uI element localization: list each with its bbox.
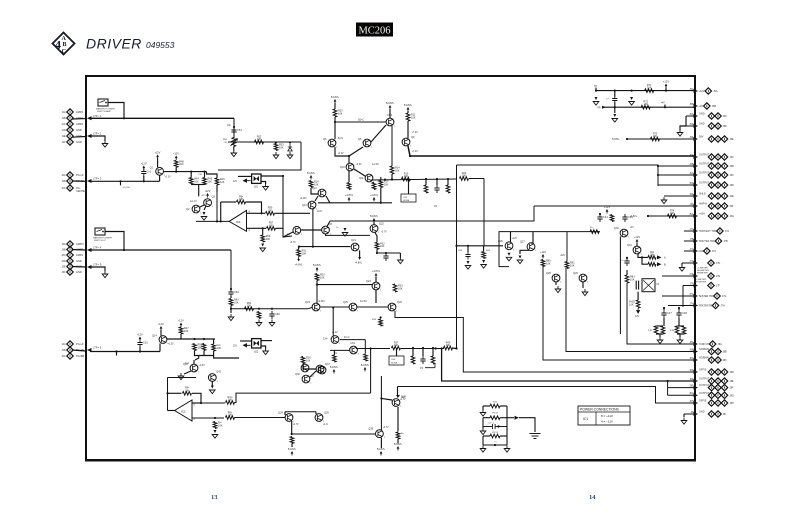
junction C46 [626,257,628,259]
svg-text:•2V: •2V [630,227,634,229]
capacitor C2 horizontal [483,424,507,429]
transistor Q14 [159,336,167,344]
wire staircase [667,381,669,395]
svg-text:Q34: Q34 [278,412,283,415]
resistor R47 [179,327,183,334]
wire R11 to Q9 [407,121,409,138]
svg-text:C61: C61 [143,341,148,345]
svg-text:10K: 10K [185,389,190,392]
wire R38 up [412,348,414,356]
junction row2 [657,165,659,167]
wire Q22 top [373,222,375,225]
svg-text:Q23: Q23 [366,280,371,283]
svg-text:POWER CONNECTIONS: POWER CONNECTIONS [580,408,620,412]
svg-text:10K: 10K [380,245,385,248]
wire Q38 vert [380,376,382,430]
transistor Q26 [505,242,513,250]
wire CH4 top [389,109,391,118]
wire R17 stub [380,188,382,203]
rail 54.8VL R16 [310,177,312,180]
svg-text:J6F: J6F [730,205,735,208]
resistor R75 [590,230,599,234]
wire fb top [221,201,236,203]
wire rung4 left [483,435,490,437]
svg-text:•4V: •4V [661,102,665,105]
wire Q19 base row [330,349,349,351]
connector J4C PG-BB [67,353,73,359]
resistor R42 [396,432,400,439]
junction R38b [441,347,443,349]
ground LTP-5 [102,271,108,278]
wire main vertical B [483,179,485,247]
junction R39 [432,347,434,349]
wire Q1 turn [159,175,161,181]
wire R11 top [407,111,409,113]
svg-text:J6C: J6C [730,174,735,177]
wire R95 top [213,339,215,344]
junction Q38 [380,397,382,399]
svg-text:•2.•V: •2.•V [323,424,329,426]
exit arrow J7E [694,274,699,278]
wire IC2 top [168,377,197,379]
wire Q43 up [193,360,195,364]
wire in1 step [235,393,371,402]
relay RL1 [642,279,655,292]
wire emitter bus [299,246,350,248]
wire output row2 [457,165,659,186]
ground arrow mid [344,227,347,232]
resistor R22 [460,177,469,181]
junction riser [370,347,372,349]
transistor Q18 [331,336,339,344]
wire R30 to Q24 [316,285,318,303]
wire Q26 coll [510,232,512,242]
svg-text:J7B: J7B [723,240,728,243]
rail +4.8VL Q21 [358,257,361,260]
svg-text:10K: 10K [630,278,635,281]
rail 54.8VL Q39 [380,453,382,456]
svg-text:J7H: J7H [721,305,726,308]
wire Q34-Q35 bar [285,411,316,413]
svg-text:12V: 12V [233,345,238,348]
svg-text:10K: 10K [257,138,262,141]
svg-text:54.8VL: 54.8VL [288,447,297,451]
rail +12V Q3 [207,195,209,198]
connector J6F pin1 AMP-B [708,203,714,209]
resistor R37 [392,346,401,350]
resistor R17 [379,181,383,188]
connector J5C pin2 GND [715,113,721,119]
svg-text:NONE: NONE [403,200,410,202]
resistor R94 [202,344,206,351]
resistor R23 [482,252,486,259]
arrow test A [657,255,662,259]
svg-text:10K: 10K [411,116,416,119]
capacitor C60 [269,311,274,319]
connector J7C GND [704,248,710,254]
exit arrow J8H [694,401,699,405]
junction C42 b [614,106,616,108]
wire Q25-Q26b [357,306,388,308]
svg-text:5•4V: 5•4V [338,138,343,140]
resistor R73 [651,137,660,141]
wire R16 down [311,188,318,194]
capacitor C61 [137,340,142,348]
wire cap bar [456,245,503,247]
ground R92 [256,320,262,327]
wire gnd rows join [685,116,687,126]
wire R48 down [175,167,177,171]
ground arrow R58 [261,242,264,247]
svg-text:C45: C45 [628,215,633,219]
connector J8E pin3 OUTPUT [721,378,727,384]
wire R87 pair [677,325,684,327]
resistor R81 [565,262,569,269]
rail +12V C1 [143,168,145,171]
svg-text:•12V: •12V [560,255,565,257]
wire C1 stub [143,176,145,181]
svg-text:CENTER: CENTER [76,189,87,193]
svg-text:TURN ON: TURN ON [699,343,711,346]
transistor Q36 [302,375,310,383]
junction row3 [657,174,659,176]
svg-text:1•1.1V: 1•1.1V [190,201,197,203]
wire R21 up [447,179,449,185]
wire Q22 em [375,233,377,243]
svg-text:J4A: J4A [61,343,66,346]
resistor R88 [682,326,686,334]
wire ladder left rail b [482,436,484,445]
wire LTP-2 ground stub [90,136,105,141]
junction PG2 [115,350,117,352]
svg-text:Q14: Q14 [152,335,157,338]
wire IC1 apex [196,220,229,222]
wire R42 up [397,407,399,432]
wire Q23 down [375,290,377,303]
wire Q12-Q13 [315,196,318,201]
svg-text:J8A: J8A [690,341,694,344]
exit arrow J8F [694,386,699,390]
junction +4V [664,106,666,108]
resistor R39 [431,356,435,364]
junction R33b [380,316,382,318]
svg-text:SWITCH LP: SWITCH LP [94,240,106,242]
connector J1D GND [67,127,73,133]
wire Q3 emitter [204,206,206,210]
wire gnd414 stub [683,414,685,417]
wire R80 drop [542,266,544,288]
connector J6A pin2 OUTPUT [715,154,721,160]
junction R53 top [275,141,277,143]
wire mid row [371,179,457,180]
rail +12V R48 [175,158,177,161]
ground node2 [228,314,234,321]
connector J6D pin3 OUTPUT-R [721,182,727,188]
connector J3C AMP4 [67,252,73,258]
resistor R71 [645,89,654,93]
connector J8I pin1 GND [708,411,714,417]
ground trim P1 [231,150,237,157]
wire R41 up [291,421,293,434]
svg-text:Q35: Q35 [324,412,329,415]
wire J3E to border [72,266,86,269]
wire in2 step [276,228,293,237]
wire C63 down [230,296,232,298]
junction TP1 [595,90,597,92]
wire Q27 coll [531,232,533,243]
wire R23 stub [483,246,485,252]
wire rung1 right [500,405,507,407]
exit arrow J7B [694,239,699,243]
svg-text:+12V: +12V [634,235,640,239]
wire rung5 [483,444,507,446]
connector J6B pin1 OUTPUT-R [708,163,714,169]
ground rung1 [480,410,486,417]
svg-text:J1C: J1C [61,123,66,126]
exit arrow J8I [694,412,699,416]
wire R46 feed [207,172,218,178]
transistor Q7 [293,226,301,234]
connector J8D pin3 OFF/E [721,369,727,375]
wire Q18 em row [340,339,365,341]
svg-text:54.8VL: 54.8VL [331,95,340,99]
wire switch S1 to bus [108,103,124,119]
svg-text:10K: 10K [179,163,184,166]
svg-text:54.8VL: 54.8VL [386,101,395,105]
connector J7G TESTER TRK [714,293,720,299]
svg-text:+12V: +12V [604,205,610,209]
svg-text:54.8VL: 54.8VL [361,363,370,367]
svg-text:J3A: J3A [61,243,66,246]
arrow TP2 [602,106,606,109]
svg-text:Q27: Q27 [520,241,525,244]
junction mid2 [391,178,393,180]
svg-text:J3E: J3E [61,266,66,269]
exit arrow J7F [694,284,699,288]
svg-text:4•2.6V: 4•2.6V [372,164,379,166]
wire row395 [668,394,695,396]
junction R103 [214,417,216,419]
switch S2 box [95,228,105,235]
connector J1F GND [67,139,73,145]
wire Q5 out [371,125,386,142]
svg-text:LTP • 1: LTP • 1 [93,114,102,118]
rail +4.8VL R31 [298,257,300,260]
wire LE2 out [261,340,272,342]
connector J5E pin1 56V [708,136,714,142]
connector J8F pin1 OUTPUT-B [708,384,714,390]
svg-text:C6L: C6L [351,342,356,345]
exit arrow J6E [694,194,699,198]
wire R44 stub [190,172,192,178]
svg-text:+12V: +12V [699,90,705,93]
wire R32 row [377,252,400,254]
svg-text:OFF/E: OFF/E [699,369,707,372]
exit arrow J5D [694,124,699,128]
rail 54.8VL Q22 [373,220,375,223]
wire Q35 drop [315,412,317,414]
junction C48 [678,307,680,309]
svg-text:J4B: J4B [61,349,66,352]
resistor R77 [648,256,656,260]
svg-text:J5B: J5B [690,104,694,106]
exit arrow J8D [694,370,699,374]
wire Q7 base [283,232,293,237]
wire row403 drop [397,387,399,396]
wire Q10 bias [348,156,350,163]
svg-text:AMP2: AMP2 [76,110,84,114]
resistor R19 [402,177,411,181]
connector J1C AMP4 [67,121,73,127]
svg-text:J2C: J2C [61,187,66,190]
junction out [409,155,411,157]
wire gnd row1 [686,115,695,117]
ground arrow Q26 [508,250,511,256]
capacitor C46 [624,258,629,266]
junction +60 [647,215,649,217]
junction in1 [200,402,202,404]
resistor R32 [375,242,379,249]
svg-text:+4.8VL: +4.8VL [370,193,379,197]
rail +12V Q31 [636,241,638,244]
junction R38 [412,347,414,349]
svg-text:J6A: J6A [730,156,735,159]
wire IC2 apex [168,410,175,412]
wire Q18 coll [332,308,334,336]
wire stub row 251 [684,250,695,252]
connector J6B pin2 OUTPUT-R [715,163,721,169]
connector J8B pin2 NORMAL [715,348,721,354]
transistor Q11 [365,174,373,182]
svg-text:C: C [62,48,67,55]
wire R78 feed [642,257,648,264]
ground arrow row2a [613,113,616,117]
wire outputB row [442,349,695,382]
junction C61 [139,350,141,352]
connector J8I pin2 GND [715,411,721,417]
junction R39b [435,347,437,349]
connector J3F GND [67,269,73,275]
wire C69 up [422,348,424,356]
svg-text:Q28: Q28 [546,272,551,275]
exit arrow J5E [694,137,699,141]
connector J8E pin2 OUTPUT [715,378,721,384]
svg-text:GND: GND [76,140,82,144]
exit arrow J6B [694,164,699,168]
svg-text:TRK/TRA TRK: TRK/TRA TRK [699,240,716,243]
transistor Q38 [392,399,400,407]
connector J5C pin1 GND [708,113,714,119]
transistor Q5 [363,139,371,147]
wire Q23 top [375,277,377,282]
svg-text:J3B: J3B [61,249,66,252]
svg-text:•2.7V: •2.7V [293,424,299,426]
connector J7A TODT/EXT TRK [717,228,723,234]
transistor Q12 [318,189,326,197]
svg-text:Q10: Q10 [340,166,345,169]
resistor R45 [203,178,207,185]
svg-text:Q13: Q13 [302,204,307,207]
wire Q12 out [326,196,330,203]
svg-text:10K: 10K [647,87,652,90]
transistor Q21 [351,243,359,251]
connector J4B PG-RF [67,347,73,353]
svg-text:B: B [664,263,666,267]
wire bank tie [195,351,214,356]
svg-text:•TP: •TP [597,108,601,110]
svg-text:LTP • 6: LTP • 6 [93,346,102,350]
svg-text:Q3: Q3 [212,196,216,199]
rail 54.8VL R11 [407,109,409,112]
svg-text:•1•4V: •1•4V [199,365,205,367]
connector J8D pin1 OFF/E [708,369,714,375]
svg-text:10K: 10K [314,183,319,186]
wire Q1 emitter chain [164,171,207,173]
svg-text:•4V: •4V [401,396,405,399]
wire Q2 link [198,185,200,197]
svg-text:10K: 10K [404,175,409,178]
diode D5 [288,144,292,151]
svg-text:10K: 10K [394,344,399,347]
svg-text:•12V: •12V [173,152,179,156]
exit arrow J6A [694,155,699,159]
ground R87 [677,337,683,344]
wire IC1 in2 [247,227,267,229]
resistor R16 [309,181,313,188]
svg-text:SWITCH AMP: SWITCH AMP [97,110,111,113]
wire +4V row [603,106,695,108]
capacitor C63 [228,289,233,297]
junction R94 top [203,338,205,340]
svg-text:•12V: •12V [201,195,206,197]
capacitor C49 electrolytic [636,281,638,290]
svg-text:Q39: Q39 [368,428,373,431]
resistor R92 [257,312,261,319]
wire C33 up [436,179,438,185]
wire J2B to border [72,180,86,182]
resistor R58 [261,235,265,242]
transistor Q2 [192,205,200,213]
svg-text:•4.7V: •4.7V [383,427,389,429]
svg-text:10K: 10K [395,169,400,172]
wire row285 drop [682,286,684,308]
junction R48 bot [175,171,177,173]
wire +60 row [648,215,695,217]
svg-text:54.8VL: 54.8VL [330,365,339,369]
transistor Q35 [315,414,323,422]
exit arrow J5C [694,114,699,118]
svg-text:J5E: J5E [730,138,735,141]
svg-text:PG-BB: PG-BB [76,354,84,358]
resistor R46 [215,178,219,185]
ground arrow Q43 [178,373,184,380]
junction in1 t [260,212,262,214]
entry arrow LTP-4 [87,248,92,252]
wire rail drop [334,103,336,109]
connector J7D [708,260,714,266]
svg-text:J4C: J4C [61,355,66,358]
svg-text:10K: 10K [239,198,244,201]
junction R41 [291,433,293,435]
resistor P20 [490,404,500,408]
wire +4V tick [664,105,666,108]
connector J8H pin3 OFF/E [721,400,727,406]
connector J6A pin1 OUTPUT [708,154,714,160]
svg-text:J7G: J7G [722,295,727,298]
resistor R72 [641,105,650,109]
connector J8F pin3 OUTPUT-B [721,384,727,390]
junction apex b [220,220,222,222]
